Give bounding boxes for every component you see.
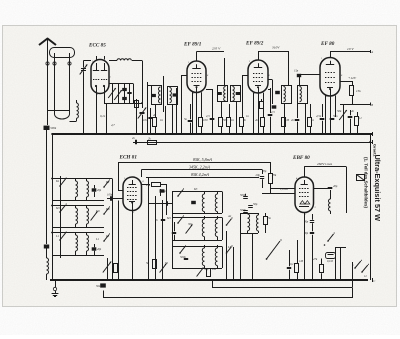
svg-text:ECH 81: ECH 81 [119, 155, 138, 161]
svg-text:500p: 500p [240, 193, 246, 197]
bottom wire y=287 [213, 281, 353, 288]
osc row3 right switch [226, 252, 228, 254]
svg-text:1n: 1n [246, 114, 250, 118]
resistor at plate line end [269, 174, 273, 184]
osc row2 switch [177, 222, 179, 224]
svg-text:1: 1 [92, 60, 93, 63]
plate line 85K 5.8mA [118, 162, 270, 164]
bus line 2 (y=142) [133, 142, 372, 144]
wire x=312 to bus [312, 238, 314, 280]
svg-text:ECC 85: ECC 85 [88, 43, 106, 49]
IF transformer 1 winding a [152, 86, 162, 105]
row3 top wire [52, 232, 104, 234]
svg-text:B: B [371, 103, 373, 107]
row1 coil b [86, 179, 88, 181]
EBF80 cathode lead [304, 213, 306, 219]
svg-text:20p: 20p [256, 173, 261, 177]
output transformer primary [247, 213, 249, 214]
svg-text:310V: 310V [272, 46, 280, 50]
plate line 85K 4.2mA [146, 177, 259, 179]
svg-text:30p: 30p [204, 267, 209, 271]
svg-text:1M: 1M [285, 118, 290, 122]
svg-text:M1: M1 [166, 216, 171, 220]
svg-text:L2: L2 [105, 234, 110, 238]
tube EBF80 [295, 177, 314, 212]
ECH81 anode wire right [141, 170, 143, 178]
ECH81 internals [132, 180, 134, 184]
IFT1 cap a [151, 94, 156, 97]
wire drop x=142 [142, 61, 144, 109]
band switch row1 right [103, 186, 105, 188]
svg-text:40p: 40p [333, 184, 338, 188]
plate line 345K 2.2mA [142, 169, 263, 171]
capacitor 2n x=163 mid [161, 219, 165, 221]
EF89/2 cathode leads [258, 93, 260, 134]
antenna coupling coil [76, 100, 78, 103]
EF89/1 plate feed wire [196, 52, 198, 62]
ground at lower bus [54, 279, 56, 281]
AF rail x=252 [252, 233, 254, 280]
junction dots on upper bus [83, 133, 85, 135]
trimmer capacitor at ECC85 input [83, 61, 85, 68]
svg-text:1M: 1M [212, 267, 216, 271]
wire to terminal B [340, 104, 370, 106]
resistor 1M left [114, 264, 118, 273]
resistor x=242 [240, 118, 244, 127]
svg-text:K3: K3 [193, 187, 198, 191]
svg-text:50n: 50n [96, 285, 101, 288]
IFT1 cap b [173, 93, 178, 96]
osc row3 coil a [204, 245, 206, 248]
band switch row2 left [59, 211, 61, 213]
osc row1 coil a [204, 192, 206, 194]
IFT2 cap b [236, 92, 241, 95]
wire x=181 [181, 75, 183, 134]
capacitor 20p at plate line end [260, 176, 264, 178]
row3 coil a [75, 233, 77, 235]
detector coil right [330, 190, 332, 199]
svg-text:M1: M1 [55, 206, 60, 210]
svg-text:0,1: 0,1 [290, 262, 294, 266]
switch 5 bottom right [354, 267, 356, 269]
wire x=176 and components [176, 88, 178, 134]
svg-text:260V t.mA: 260V t.mA [317, 162, 333, 166]
ECC85 tank capacitor [129, 84, 131, 104]
left coil to bus [47, 258, 49, 274]
svg-text:A2: A2 [227, 214, 232, 218]
row3 coil b [86, 233, 88, 235]
svg-text:M2: M2 [95, 209, 100, 213]
trimmer 50k [343, 104, 345, 134]
ECH81 feed wire left [118, 162, 120, 190]
IFT1 center drop [163, 76, 165, 112]
svg-text:100p: 100p [160, 189, 166, 193]
speaker feed wires [346, 185, 348, 213]
IF transformer 2 winding a [224, 58, 226, 85]
IF transformer 3 winding a [288, 58, 290, 85]
ECC85 tank right vertical [133, 84, 135, 104]
osc row3 coil b [217, 245, 219, 248]
blackbox 10n top left osc [160, 189, 165, 192]
osc row2 caps 100p [172, 232, 176, 234]
EBF80 bottom rail [304, 218, 306, 280]
row2 coil b [86, 206, 88, 208]
svg-text:30p: 30p [188, 222, 193, 226]
resistor x=229 [229, 104, 231, 118]
terminal B [370, 103, 372, 106]
resistor x=155 low [153, 260, 157, 269]
extra wire x=150.6 top [150, 108, 152, 134]
left rail [52, 134, 54, 280]
EF89/2 plate feed [258, 51, 260, 60]
band switch row3 left [59, 239, 61, 241]
capacitor 500p AF 2 [243, 210, 248, 212]
wire x=346 down to AF [346, 185, 348, 213]
osc row3 switch [179, 252, 181, 254]
IFT2 cap a [217, 92, 222, 95]
svg-text:EF 89/2: EF 89/2 [245, 41, 264, 47]
resistor 15k [352, 81, 354, 85]
svg-text:(1. Teil des Schaltbildes): (1. Teil des Schaltbildes) [364, 157, 369, 208]
svg-text:50k: 50k [223, 118, 228, 122]
svg-text:50k: 50k [337, 109, 342, 113]
EF89/1 cathode leads [196, 93, 198, 135]
tube ECH81 [123, 177, 142, 211]
EF89/2 right pin wire upper [268, 79, 272, 81]
svg-text:1: 1 [188, 61, 189, 64]
capacitor 2n x=297 [297, 103, 299, 118]
svg-text:L1: L1 [55, 234, 60, 238]
tube EF89/2 [248, 60, 268, 93]
ECC85 triode anodes [96, 63, 98, 71]
EF89/2 right side wire [268, 89, 270, 91]
AF rail x=240 [240, 233, 242, 280]
capacitor 30p pair below EBF80 [310, 220, 314, 222]
connector box right [357, 175, 365, 181]
wire x=148 osc [148, 177, 150, 215]
row1 bottom wire [52, 200, 104, 202]
junction x=370 on buses [369, 133, 371, 135]
ECC85 cathodes [95, 85, 97, 87]
bus end ticks [372, 132, 374, 136]
IFT1 top connection [147, 85, 152, 87]
osc cap on left line [166, 201, 168, 205]
EBF80 internals [304, 180, 306, 184]
capacitor 2n on bus2 left end [135, 140, 137, 145]
row1 top wire [52, 178, 104, 180]
capacitor 100p right of ECH81 [160, 189, 162, 196]
resistor 5k AF [264, 217, 268, 225]
resistor 1M near bus [295, 264, 299, 273]
EF80 internals [330, 61, 332, 65]
osc right rail x=233.5 [233, 247, 235, 280]
band switch row3 right [103, 240, 105, 242]
osc row2 right switch [226, 224, 228, 226]
IF transformer 3 winding b [298, 86, 308, 104]
resistor below IFT1 [155, 105, 157, 118]
svg-text:500p: 500p [180, 255, 186, 259]
capacitor 50p box [272, 105, 277, 108]
wire ECC85 top to grid line [96, 56, 98, 60]
svg-text:Ultra-Exquisit 57 W: Ultra-Exquisit 57 W [373, 155, 382, 222]
ECC85 tank trimmer 2 [118, 84, 120, 104]
EF89/2 left pin wire [243, 76, 249, 118]
resistor 0.1M right [320, 265, 324, 273]
row1 coil a [75, 179, 77, 181]
capacitor 50n below EF80 [330, 118, 335, 120]
output transformer secondary [258, 213, 260, 215]
output jack [326, 253, 336, 259]
svg-text:70k: 70k [272, 173, 277, 177]
resistor x=310 [310, 104, 312, 117]
tube EF89/1 [187, 61, 206, 93]
svg-text:41k: 41k [146, 183, 151, 187]
capacitor 50p AF [248, 205, 253, 207]
ECC85 tank trimmer 1 [112, 84, 114, 104]
resistor right of ECH81 [152, 183, 161, 187]
junction dots on lower bus [54, 279, 56, 281]
wire x=147 [147, 104, 149, 134]
wire below tank to bus [106, 103, 108, 134]
osc row3 wires [172, 246, 222, 248]
capacitor 4,5n blackbox [275, 91, 280, 94]
IFT3 bottom drops [284, 103, 286, 134]
svg-text:1: 1 [249, 60, 250, 63]
wire from 40p to tube [314, 188, 329, 190]
capacitor 50p left [44, 245, 49, 249]
osc row2 trimmer 30p [186, 225, 193, 234]
resistor near bus x=208 [207, 269, 211, 277]
svg-text:M2: M2 [105, 207, 110, 211]
ECC85 tank top wire [109, 83, 133, 85]
svg-text:50p: 50p [253, 202, 258, 206]
tube EF80 [320, 58, 340, 97]
capacitor 4n and resistor right of EF80 [348, 116, 353, 118]
svg-text:EBF 80: EBF 80 [292, 155, 310, 161]
EF89/2 internals [258, 63, 260, 67]
osc row2 coil b [217, 216, 219, 219]
row2 top wire [52, 205, 104, 207]
EF80 plate feed to terminal A [330, 52, 332, 58]
ECH81 grid capacitor 100p [107, 198, 123, 200]
band switch row2 right [103, 213, 105, 215]
capacitor 1M x=136 [136, 99, 138, 134]
svg-text:1M: 1M [299, 259, 303, 263]
svg-text:4n: 4n [351, 109, 355, 113]
EF89/1 right side wire [206, 89, 212, 91]
osc row1 switch [177, 195, 179, 197]
svg-text:K1: K1 [55, 179, 60, 183]
svg-text:10 V: 10 V [347, 47, 354, 51]
osc right rail x=226.5 [226, 231, 228, 280]
svg-text:47k: 47k [313, 257, 318, 261]
row3 trimmer cap 40p [92, 247, 97, 250]
AF band switch lever [266, 258, 268, 260]
right area rail x=340 [340, 247, 342, 280]
paper grain [0, 0, 1, 1]
svg-text:EF 89/1: EF 89/1 [183, 42, 202, 48]
capacitor 50n below bus [102, 279, 104, 281]
left bank right rails [112, 179, 114, 281]
row3 bottom wire [52, 255, 104, 257]
svg-text:100: 100 [203, 118, 208, 122]
svg-text:5n: 5n [184, 117, 188, 121]
svg-text:EF 80: EF 80 [320, 41, 335, 47]
resistor 1M x=284 [284, 104, 286, 117]
svg-text:4n: 4n [153, 113, 157, 117]
osc bank rails [172, 192, 174, 269]
svg-text:50n: 50n [333, 114, 338, 118]
osc row1 wires [172, 191, 222, 193]
chassis bus lower (y=280) [50, 279, 368, 281]
svg-text:+12V: +12V [348, 76, 357, 80]
resistor 4,7k right of EF89/2 [260, 102, 264, 109]
EBF80 plate feed wire [304, 167, 306, 178]
wire x=96 below ECC85 to bus [96, 94, 98, 135]
IFT2 drop b [236, 102, 238, 135]
svg-text:10n: 10n [143, 118, 148, 122]
IFT1 drop b [172, 105, 174, 135]
right rail x=335 [335, 247, 337, 280]
osc left line y=203.5 [148, 203, 172, 205]
capacitor 15p coupling to EF80 [299, 77, 301, 85]
svg-text:L3: L3 [227, 245, 232, 249]
switch 12 bottom right [361, 271, 363, 273]
resistor 2k on bus2 [148, 141, 157, 145]
antenna symbol [39, 39, 56, 46]
ECC85 grid dashes [93, 79, 94, 81]
svg-text:235 V: 235 V [212, 47, 221, 51]
svg-text:20p: 20p [262, 169, 267, 173]
band switch row1 left [59, 185, 61, 187]
transformer connect wires [240, 213, 258, 215]
row2 coil a [75, 206, 77, 208]
trimmer near bus x=200 [197, 268, 204, 277]
left bank rail x=60 [60, 176, 62, 258]
wire drops from plate lines [270, 162, 272, 174]
chassis bus upper (y=134) [52, 133, 372, 135]
ECH81 cathode to bus [132, 211, 134, 281]
row1 trimmer cap 20k [92, 188, 97, 191]
capacitor 500k on antenna lead [47, 111, 49, 126]
tuning capacitor left [103, 262, 111, 273]
terminal A [370, 50, 372, 53]
capacitor .1/4n near bus [287, 267, 291, 269]
svg-text:4n: 4n [243, 118, 247, 122]
tube ECC85 [91, 60, 109, 94]
ECC85 tank bottom wire [104, 103, 142, 105]
osc row2 coil a [204, 216, 206, 219]
osc row1 cap [191, 201, 196, 204]
svg-text:15k: 15k [356, 89, 361, 93]
ferrite antenna body [50, 48, 75, 58]
top wire y=60.5 right of tube with coil [109, 60, 117, 62]
svg-text:1: 1 [124, 177, 125, 180]
extra wire x=165.6 top [165, 106, 167, 134]
svg-text:2n: 2n [291, 118, 295, 122]
svg-text:0,1M: 0,1M [327, 260, 333, 263]
switch 9-11 [327, 240, 329, 242]
ECC85 tank blackbox caps [124, 84, 126, 104]
capacitor 2.5n x=212 [212, 89, 214, 134]
svg-text:500p: 500p [240, 208, 246, 212]
IF transformer 1 winding b [168, 87, 178, 105]
capacitor 0.1n right of EF89/2 [270, 88, 272, 113]
resistor 50k below IFT2 [221, 102, 223, 118]
svg-text:4n: 4n [255, 118, 259, 122]
row2 bottom wire [52, 227, 104, 229]
osc row1 coil b [217, 192, 219, 194]
resistor cluster below EF89/2 [261, 118, 265, 127]
capacitor 5n below EF89/1 [188, 120, 193, 122]
wires bottom right to switches [352, 262, 354, 287]
capacitor 40p at EBF80 right [328, 187, 333, 189]
capacitor 4.5n below EF80 [322, 104, 324, 117]
terminal C label [372, 278, 374, 282]
EF89/1 internals [196, 64, 198, 68]
svg-text:15p: 15p [294, 70, 299, 73]
IF transformer 2 winding b [231, 86, 241, 102]
antenna tap wire [48, 110, 70, 112]
right rail x=370 [370, 134, 372, 280]
svg-text:A: A [370, 50, 373, 54]
antenna lead wire [47, 39, 49, 111]
capacitor 500p AF [243, 196, 248, 198]
bottom wire y=297 [104, 288, 353, 298]
top wire y=60.5 left of tube [84, 60, 92, 62]
svg-text:K2: K2 [105, 180, 110, 184]
trimmer on x=142 [140, 112, 145, 114]
resistor 100 below EF89/1 [199, 118, 203, 127]
osc row3 cap 500p [184, 258, 188, 260]
capacitor at x=150.6 [148, 117, 152, 119]
EF80 cathode leads [330, 96, 332, 134]
svg-text:1: 1 [321, 57, 322, 60]
antenna contact circles [46, 62, 49, 65]
svg-text:L1: L1 [95, 237, 100, 241]
row2 trimmer [91, 212, 98, 221]
svg-text:40p: 40p [97, 248, 102, 251]
trimmer x=162 low [160, 264, 167, 273]
osc row2 wires [172, 217, 222, 219]
svg-text:500k: 500k [50, 126, 57, 130]
svg-text:20p: 20p [97, 189, 102, 192]
